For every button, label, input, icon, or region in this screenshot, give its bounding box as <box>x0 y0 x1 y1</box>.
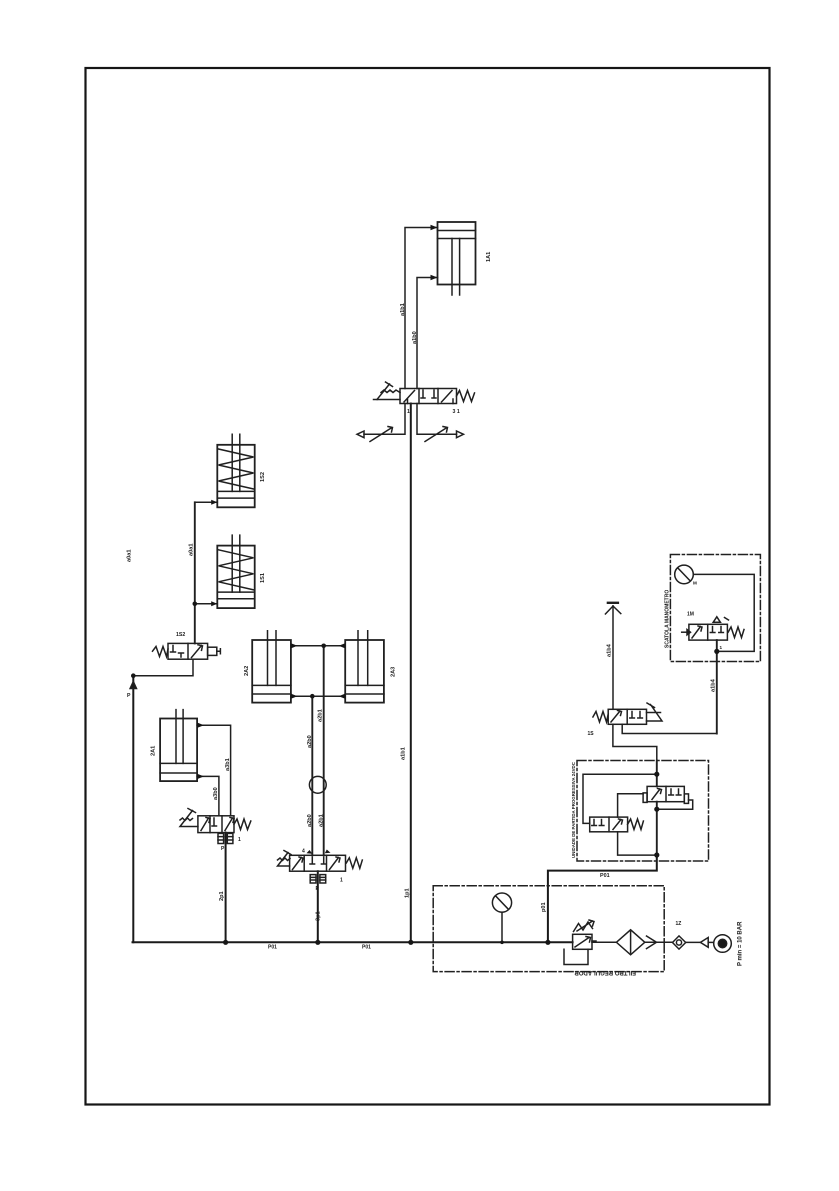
svg-text:P min = 10 BAR: P min = 10 BAR <box>738 921 744 966</box>
svg-text:a2b1: a2b1 <box>319 814 325 827</box>
svg-text:P01: P01 <box>600 873 610 879</box>
svg-text:1M: 1M <box>687 612 694 618</box>
svg-text:a3b1: a3b1 <box>225 758 231 771</box>
svg-text:2p1: 2p1 <box>219 891 225 901</box>
svg-text:a1b4: a1b4 <box>711 678 717 692</box>
svg-text:P01: P01 <box>268 945 277 951</box>
svg-text:a0a1: a0a1 <box>189 544 195 556</box>
svg-text:a1b0: a1b0 <box>412 331 418 344</box>
svg-text:a1b1: a1b1 <box>401 747 407 760</box>
svg-text:a2b0: a2b0 <box>307 735 313 748</box>
svg-text:P: P <box>127 693 131 699</box>
svg-text:1A1: 1A1 <box>486 252 492 262</box>
svg-text:4: 4 <box>302 849 305 855</box>
svg-text:3p1: 3p1 <box>316 911 322 921</box>
svg-text:p01: p01 <box>541 902 547 912</box>
svg-text:a3b0: a3b0 <box>213 787 219 800</box>
svg-text:1: 1 <box>720 645 723 650</box>
svg-text:1: 1 <box>340 878 343 884</box>
svg-text:P01: P01 <box>362 945 371 951</box>
svg-text:2A3: 2A3 <box>391 667 397 677</box>
svg-text:a1b1: a1b1 <box>400 303 406 316</box>
svg-text:a2b0: a2b0 <box>307 814 313 827</box>
svg-text:1S2: 1S2 <box>260 472 266 482</box>
svg-text:3 1: 3 1 <box>453 409 460 415</box>
svg-text:1: 1 <box>238 837 241 843</box>
svg-text:2A2: 2A2 <box>244 666 250 676</box>
svg-text:1S1: 1S1 <box>260 573 266 583</box>
svg-text:1S2: 1S2 <box>176 632 185 638</box>
svg-text:M: M <box>693 581 697 586</box>
svg-text:a1b4: a1b4 <box>607 643 613 657</box>
svg-text:UNIDADE DE PARTIDA PROGRESSIVA: UNIDADE DE PARTIDA PROGRESSIVA 24VDC <box>571 761 576 858</box>
svg-text:a2b1: a2b1 <box>318 709 324 722</box>
svg-text:1S: 1S <box>588 731 595 737</box>
svg-text:SCATOLA MANOMETRO: SCATOLA MANOMETRO <box>665 590 671 648</box>
svg-text:FILTRO REGULADOR: FILTRO REGULADOR <box>574 969 636 975</box>
svg-text:1: 1 <box>407 409 410 415</box>
svg-text:1Z: 1Z <box>676 921 682 927</box>
svg-text:2A1: 2A1 <box>151 746 157 756</box>
svg-text:a0a1: a0a1 <box>127 550 133 562</box>
svg-text:1p1: 1p1 <box>405 888 411 898</box>
